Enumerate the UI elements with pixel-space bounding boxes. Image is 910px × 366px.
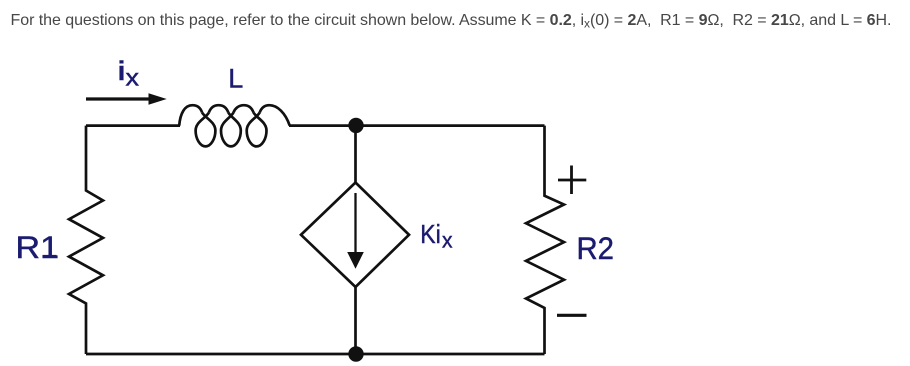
svg-text:x: x <box>126 64 140 90</box>
svg-text:x: x <box>442 230 453 253</box>
svg-text:L: L <box>228 63 243 93</box>
svg-text:Ki: Ki <box>420 221 441 249</box>
svg-text:R1: R1 <box>16 230 60 265</box>
svg-text:R2: R2 <box>577 230 615 266</box>
svg-text:i: i <box>118 56 126 86</box>
